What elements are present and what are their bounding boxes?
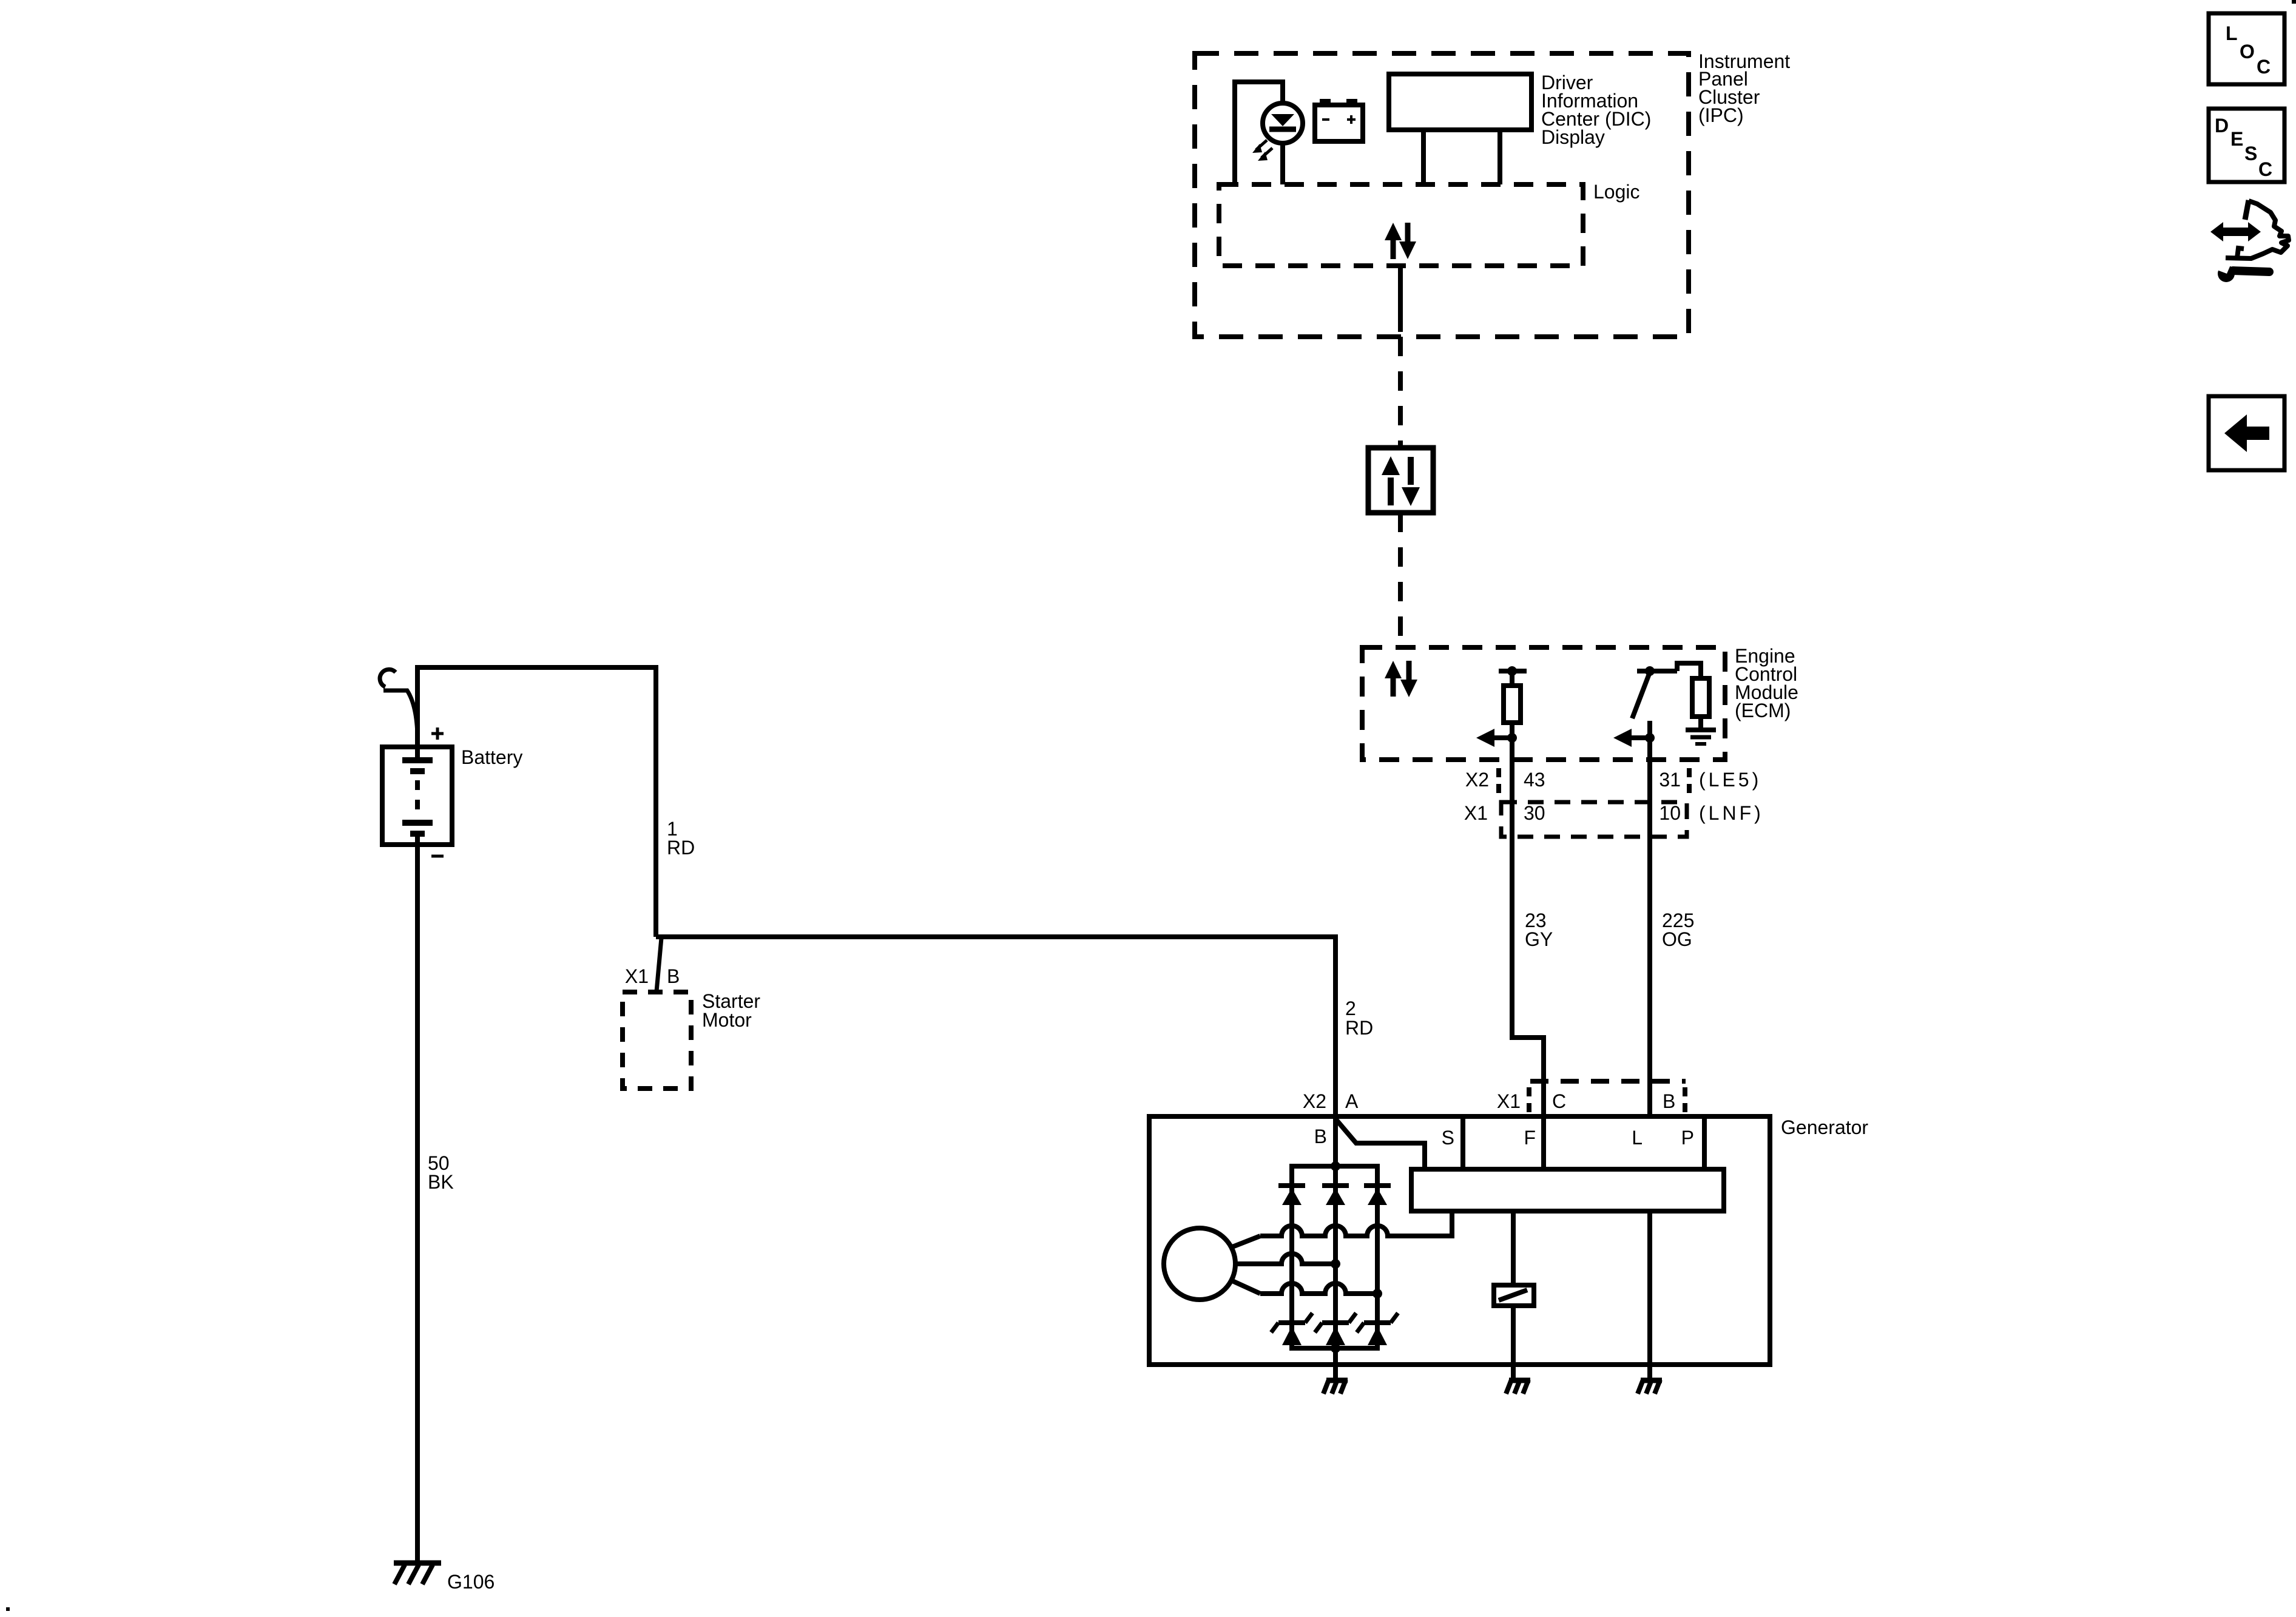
svg-text:(LNF): (LNF) [1699,802,1764,824]
svg-text:Battery: Battery [461,746,522,768]
svg-text:C: C [2258,158,2272,180]
svg-text:2: 2 [1345,998,1356,1019]
svg-text:Logic: Logic [1593,181,1640,203]
svg-text:L: L [2226,22,2238,44]
svg-text:(IPC): (IPC) [1698,104,1744,126]
svg-text:43: 43 [1524,769,1545,791]
svg-text:X1: X1 [1497,1090,1521,1112]
svg-text:P: P [1681,1127,1694,1149]
svg-text:B: B [667,965,680,987]
svg-text:X1: X1 [1464,802,1488,824]
svg-text:Display: Display [1541,126,1605,148]
svg-text:X2: X2 [1303,1090,1326,1112]
svg-text:31: 31 [1659,769,1681,791]
svg-text:S: S [1442,1127,1454,1149]
svg-text:L: L [1632,1127,1643,1149]
svg-text:B: B [1663,1090,1675,1112]
svg-text:X2: X2 [1465,769,1489,791]
svg-text:Generator: Generator [1781,1116,1868,1138]
svg-text:F: F [1524,1127,1536,1149]
svg-text:RD: RD [1345,1017,1373,1039]
svg-text:C: C [2257,56,2271,78]
svg-text:10: 10 [1659,802,1681,824]
svg-text:A: A [1345,1090,1359,1112]
svg-text:X1: X1 [625,965,649,987]
svg-text:OG: OG [1662,928,1692,950]
svg-text:30: 30 [1524,802,1545,824]
svg-text:D: D [2215,115,2229,137]
svg-text:GY: GY [1525,928,1553,950]
svg-text:G106: G106 [447,1571,495,1593]
svg-text:B: B [1314,1126,1327,1147]
svg-text:(LE5): (LE5) [1699,769,1761,791]
svg-text:O: O [2240,41,2255,62]
svg-text:S: S [2244,143,2257,164]
svg-text:(ECM): (ECM) [1735,700,1791,721]
svg-text:BK: BK [428,1171,454,1193]
svg-text:RD: RD [667,837,695,859]
svg-text:C: C [1552,1090,1566,1112]
svg-text:Motor: Motor [702,1009,752,1031]
svg-text:E: E [2230,128,2243,150]
